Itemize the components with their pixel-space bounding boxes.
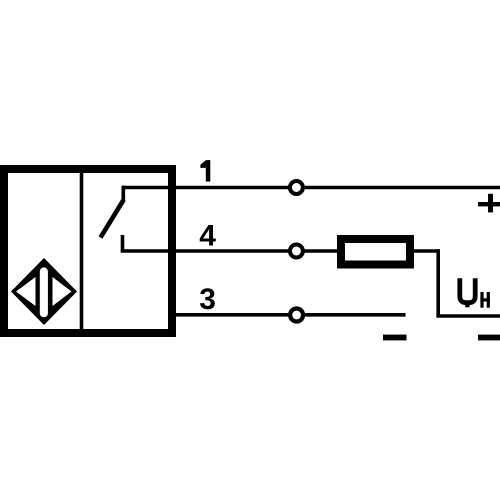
wire bottom to edge	[436, 314, 500, 318]
label Uн (load voltage)	[460, 278, 490, 307]
wire resistor to corner	[414, 249, 440, 253]
wire pin 3	[171, 313, 406, 317]
inductive sensor diamond symbol	[11, 258, 77, 325]
pin label 1	[200, 160, 210, 182]
terminal circle pin 3	[290, 309, 303, 322]
terminal circle pin 4	[290, 245, 303, 258]
wire pin 4	[121, 249, 341, 253]
sensor body outline	[4, 169, 172, 333]
switch top contact tick	[122, 186, 126, 201]
plus terminal sign	[478, 194, 500, 213]
minus terminal sign bottom right	[478, 335, 500, 341]
wire vertical drop	[436, 249, 440, 316]
switch bottom contact tick	[121, 235, 125, 251]
minus sign below wire 3	[383, 335, 407, 341]
svg-text:3: 3	[199, 283, 216, 316]
svg-text:4: 4	[199, 219, 216, 252]
switch lever	[101, 200, 124, 238]
wire pin 1	[122, 186, 500, 190]
sensor internal divider	[80, 173, 84, 329]
terminal circle pin 1	[290, 181, 303, 194]
load resistor	[341, 239, 410, 265]
